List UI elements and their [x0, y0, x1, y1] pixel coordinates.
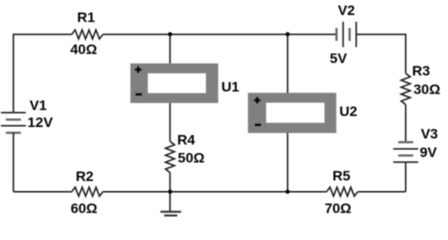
resistor R2 [71, 168, 103, 216]
node junction bottom-right [286, 190, 290, 194]
wire top-left segment [13, 33, 71, 35]
battery V1 [1, 97, 54, 133]
wire R4 to bottom [169, 173, 171, 192]
svg-text:9V: 9V [420, 144, 438, 160]
svg-text:V2: V2 [338, 2, 355, 18]
svg-text:U2: U2 [339, 103, 357, 119]
node junction bottom-left [168, 190, 172, 194]
svg-text:50Ω: 50Ω [178, 150, 205, 166]
wire left lower segment [12, 133, 14, 192]
svg-text:R3: R3 [412, 62, 430, 78]
resistor R3 [401, 62, 440, 104]
resistor R5 [325, 167, 358, 215]
svg-text:V3: V3 [421, 125, 438, 141]
svg-text:30Ω: 30Ω [414, 81, 441, 97]
wire top-middle segment [103, 33, 337, 35]
wire U2 branch bottom [287, 133, 289, 192]
wire U1 branch bottom [169, 103, 171, 141]
wire left upper segment [12, 34, 14, 113]
svg-text:V1: V1 [30, 97, 47, 113]
wire top-right segment [356, 33, 406, 35]
svg-text:R1: R1 [77, 9, 95, 25]
wire bottom-left segment [13, 191, 71, 193]
meter U1 [130, 63, 239, 103]
battery V3 [393, 125, 438, 162]
meter U2 [248, 93, 358, 133]
wire bottom-right segment [358, 191, 406, 193]
svg-text:70Ω: 70Ω [325, 200, 352, 216]
wire right lower segment [405, 162, 407, 192]
battery V2 [330, 2, 356, 66]
svg-text:60Ω: 60Ω [71, 200, 98, 216]
svg-text:12V: 12V [27, 114, 53, 130]
svg-text:5V: 5V [330, 50, 348, 66]
wire bottom-middle segment [103, 191, 327, 193]
svg-text:R5: R5 [333, 167, 351, 183]
wire right middle segment [405, 105, 407, 142]
wire U1 branch top [169, 34, 171, 63]
svg-text:R4: R4 [177, 131, 195, 147]
resistor R4 [166, 131, 205, 172]
svg-text:40Ω: 40Ω [70, 41, 97, 57]
ground [160, 192, 181, 216]
resistor R1 [70, 9, 103, 57]
wire U2 branch top [287, 34, 289, 92]
wire right upper segment [405, 34, 407, 74]
node junction top-right [286, 32, 290, 36]
svg-text:U1: U1 [221, 79, 239, 95]
node junction top-left [168, 32, 172, 36]
svg-text:R2: R2 [76, 168, 94, 184]
